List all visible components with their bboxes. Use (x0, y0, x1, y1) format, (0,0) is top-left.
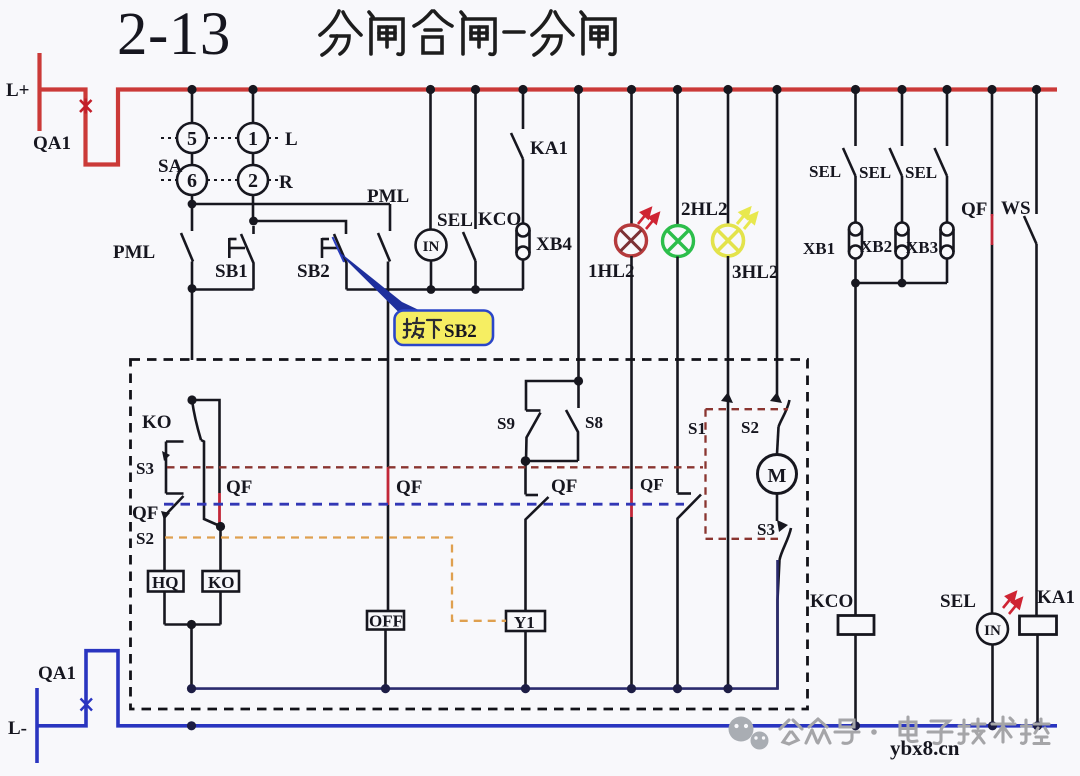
svg-text:XB1: XB1 (803, 239, 835, 258)
dash (504, 30, 524, 34)
link XB2 (896, 223, 909, 259)
SA selector: circled contacts 5,1,6,2 (177, 94, 268, 221)
svg-text:IN: IN (423, 239, 440, 255)
svg-text:QA1: QA1 (33, 133, 71, 154)
contact SEL (top) (463, 94, 476, 290)
wire: node under SA to PML row (192, 204, 390, 231)
svg-text:L+: L+ (6, 80, 30, 101)
contact QF above Y1 (NC) (526, 461, 549, 611)
svg-text:1: 1 (248, 128, 258, 150)
svg-text:S3: S3 (757, 520, 775, 539)
svg-text:QF: QF (961, 199, 987, 220)
contact QF above bus (2HL2 line, NC) (678, 257, 702, 689)
L- rail (blue negative bus) (37, 651, 1057, 763)
公 (780, 720, 802, 744)
svg-text:SEL: SEL (940, 591, 976, 612)
contact SEL 1 (843, 94, 856, 222)
svg-text:XB3: XB3 (906, 238, 938, 257)
contact PML (right) (378, 204, 390, 360)
电 (900, 717, 917, 742)
S2 actuating arrow (161, 511, 170, 520)
dot (871, 729, 877, 735)
号 (835, 720, 859, 743)
illumination arrows 1HL2 (638, 209, 659, 230)
indicator IN (top) (416, 94, 447, 290)
svg-text:5: 5 (187, 128, 197, 150)
svg-text:QF: QF (640, 475, 664, 494)
illumination arrows 3HL2 (737, 209, 757, 230)
wire: SB2 output to IN/KCO/XB4 node (347, 288, 524, 291)
svg-text:PML: PML (113, 242, 155, 263)
title 2-13 (117, 1, 231, 68)
node dots on L- rail (187, 721, 1042, 730)
title 分闸合闸-分闸 (hand-drawn glyphs) (320, 11, 615, 55)
svg-text:2HL2: 2HL2 (681, 199, 727, 220)
branch S2 / motor M / S3 (777, 94, 790, 454)
watermark wechat icon (729, 717, 769, 750)
svg-text:Y1: Y1 (514, 613, 535, 632)
contact QF (right, closed - red) (991, 94, 994, 613)
link XB4 (517, 224, 530, 260)
svg-text:SA: SA (158, 156, 183, 177)
子 (928, 721, 952, 744)
lamp 3HL2 (yellow) (727, 94, 730, 225)
svg-text:KO: KO (142, 412, 172, 433)
dashed enclosure box (131, 360, 808, 710)
svg-text:XB2: XB2 (860, 237, 892, 256)
svg-text:6: 6 (187, 170, 197, 192)
svg-text:WS: WS (1001, 198, 1031, 219)
coil HQ box (148, 571, 184, 592)
linkage dashed S1/S2/S3 box (dark red) (706, 409, 789, 539)
svg-text:OFF: OFF (369, 612, 403, 631)
众 (806, 719, 830, 743)
svg-text:KCO: KCO (478, 209, 521, 230)
S9 / S8 parallel group (574, 376, 583, 385)
控 (1022, 719, 1050, 744)
internal negative bus (navy) (192, 560, 778, 689)
svg-text:S8: S8 (585, 413, 603, 432)
coil KCO box (838, 616, 874, 635)
breaker QA1 mark (bottom, blue) (81, 697, 93, 712)
wire to S9/S8 group (577, 94, 580, 381)
push button SB2 (322, 234, 347, 290)
illumination arrows IN bottom (1003, 593, 1022, 615)
indicator IN (bottom) (991, 613, 994, 614)
watermark 公众号·电子技术控 (780, 717, 1049, 744)
switch S1 arrow mark (721, 392, 733, 403)
wire 3HL2 / S1 line (727, 256, 730, 689)
lamp 1HL2 (red) (630, 94, 633, 225)
coil OFF box (367, 611, 404, 630)
SB2 blue highlight on blade (333, 237, 345, 262)
linkage dashed QF row (blue) (164, 503, 684, 506)
contact SEL 2 (890, 94, 903, 222)
svg-text:QF: QF (396, 477, 422, 498)
L+ rail (red positive bus) (40, 53, 1058, 165)
lamp 2HL2 (green) (676, 94, 679, 226)
svg-text:SB1: SB1 (215, 261, 248, 282)
motor M (758, 455, 797, 494)
contact KO with S3 bracket and QF/S2 blade (165, 400, 222, 571)
闸 (369, 12, 403, 54)
svg-text:QA1: QA1 (38, 663, 76, 684)
分 (320, 11, 361, 55)
svg-text:SEL: SEL (905, 163, 937, 182)
svg-text:S3: S3 (136, 459, 154, 478)
push button SB1 (229, 226, 253, 290)
svg-text:2-13: 2-13 (117, 1, 231, 68)
switch S2 arrow mark (770, 392, 782, 403)
svg-text:L: L (285, 129, 298, 150)
wires below HQ/KO (165, 592, 221, 689)
contact PML (left) (181, 233, 193, 289)
svg-text:1HL2: 1HL2 (588, 261, 634, 282)
svg-text:S2: S2 (741, 418, 759, 437)
术 (992, 717, 1015, 742)
svg-text:KCO: KCO (810, 591, 853, 612)
contact WS (1024, 94, 1037, 616)
下 (427, 320, 441, 338)
技 (959, 719, 985, 743)
link XB1 (849, 223, 862, 259)
svg-text:SEL: SEL (437, 210, 473, 231)
svg-text:R: R (279, 172, 293, 193)
callout pointer (press SB2) (337, 250, 422, 312)
svg-text:QF: QF (551, 476, 577, 497)
wire: circle2 node to SB2 (253, 221, 346, 234)
闸 (461, 12, 495, 54)
SA linkage dashed (161, 138, 282, 180)
linkage dashed S3 row (dark red) (167, 466, 703, 468)
svg-text:SEL: SEL (809, 162, 841, 181)
svg-text:S1: S1 (688, 419, 706, 438)
svg-text:KA1: KA1 (1037, 587, 1075, 608)
wire OFF branch with red QF segment (387, 360, 390, 467)
node: KO branch junction (187, 395, 196, 404)
svg-text:KO: KO (208, 573, 234, 592)
node dots on L+ rail (187, 85, 1041, 94)
svg-text:QF: QF (132, 503, 158, 524)
svg-text:2: 2 (248, 170, 258, 192)
svg-text:QF: QF (226, 477, 252, 498)
wire 1HL2 to bus with QF red segment (630, 256, 633, 489)
contact KA1 (top) (511, 94, 523, 223)
callout box 按下SB2 (395, 311, 494, 346)
svg-text:ybx8.cn: ybx8.cn (890, 736, 960, 760)
svg-text:KA1: KA1 (530, 138, 568, 159)
svg-text:PML: PML (367, 186, 409, 207)
按 (404, 318, 425, 338)
svg-text:M: M (768, 465, 787, 487)
分 (532, 11, 573, 55)
link XB3 (941, 223, 954, 259)
contact SEL 3 (935, 94, 948, 222)
svg-text:3HL2: 3HL2 (732, 262, 778, 283)
coil Y1 box (506, 611, 545, 631)
svg-text:SEL: SEL (859, 163, 891, 182)
wire: XB junction bus to KCO (856, 283, 948, 616)
svg-text:HQ: HQ (152, 573, 178, 592)
svg-text:L-: L- (8, 718, 27, 739)
coil KO box (203, 571, 240, 592)
breaker QA1 mark (top) (80, 99, 92, 114)
coil KA1 box (1020, 616, 1057, 635)
linkage dashed S2 row (orange) (165, 538, 506, 621)
svg-text:SB2: SB2 (297, 261, 330, 282)
闸 (581, 12, 615, 54)
switch S3 (motor branch) (777, 494, 791, 690)
wire: PML/SB1 output junction (192, 290, 254, 361)
svg-text:XB4: XB4 (536, 234, 572, 255)
svg-text:SB2: SB2 (444, 321, 477, 342)
S3 actuating arrow (162, 451, 170, 461)
wire: QF aux branch (parallel) with red segment (192, 400, 220, 493)
svg-text:S2: S2 (136, 529, 154, 548)
svg-text:S9: S9 (497, 414, 515, 433)
svg-text:IN: IN (984, 623, 1001, 639)
合 (414, 11, 452, 53)
